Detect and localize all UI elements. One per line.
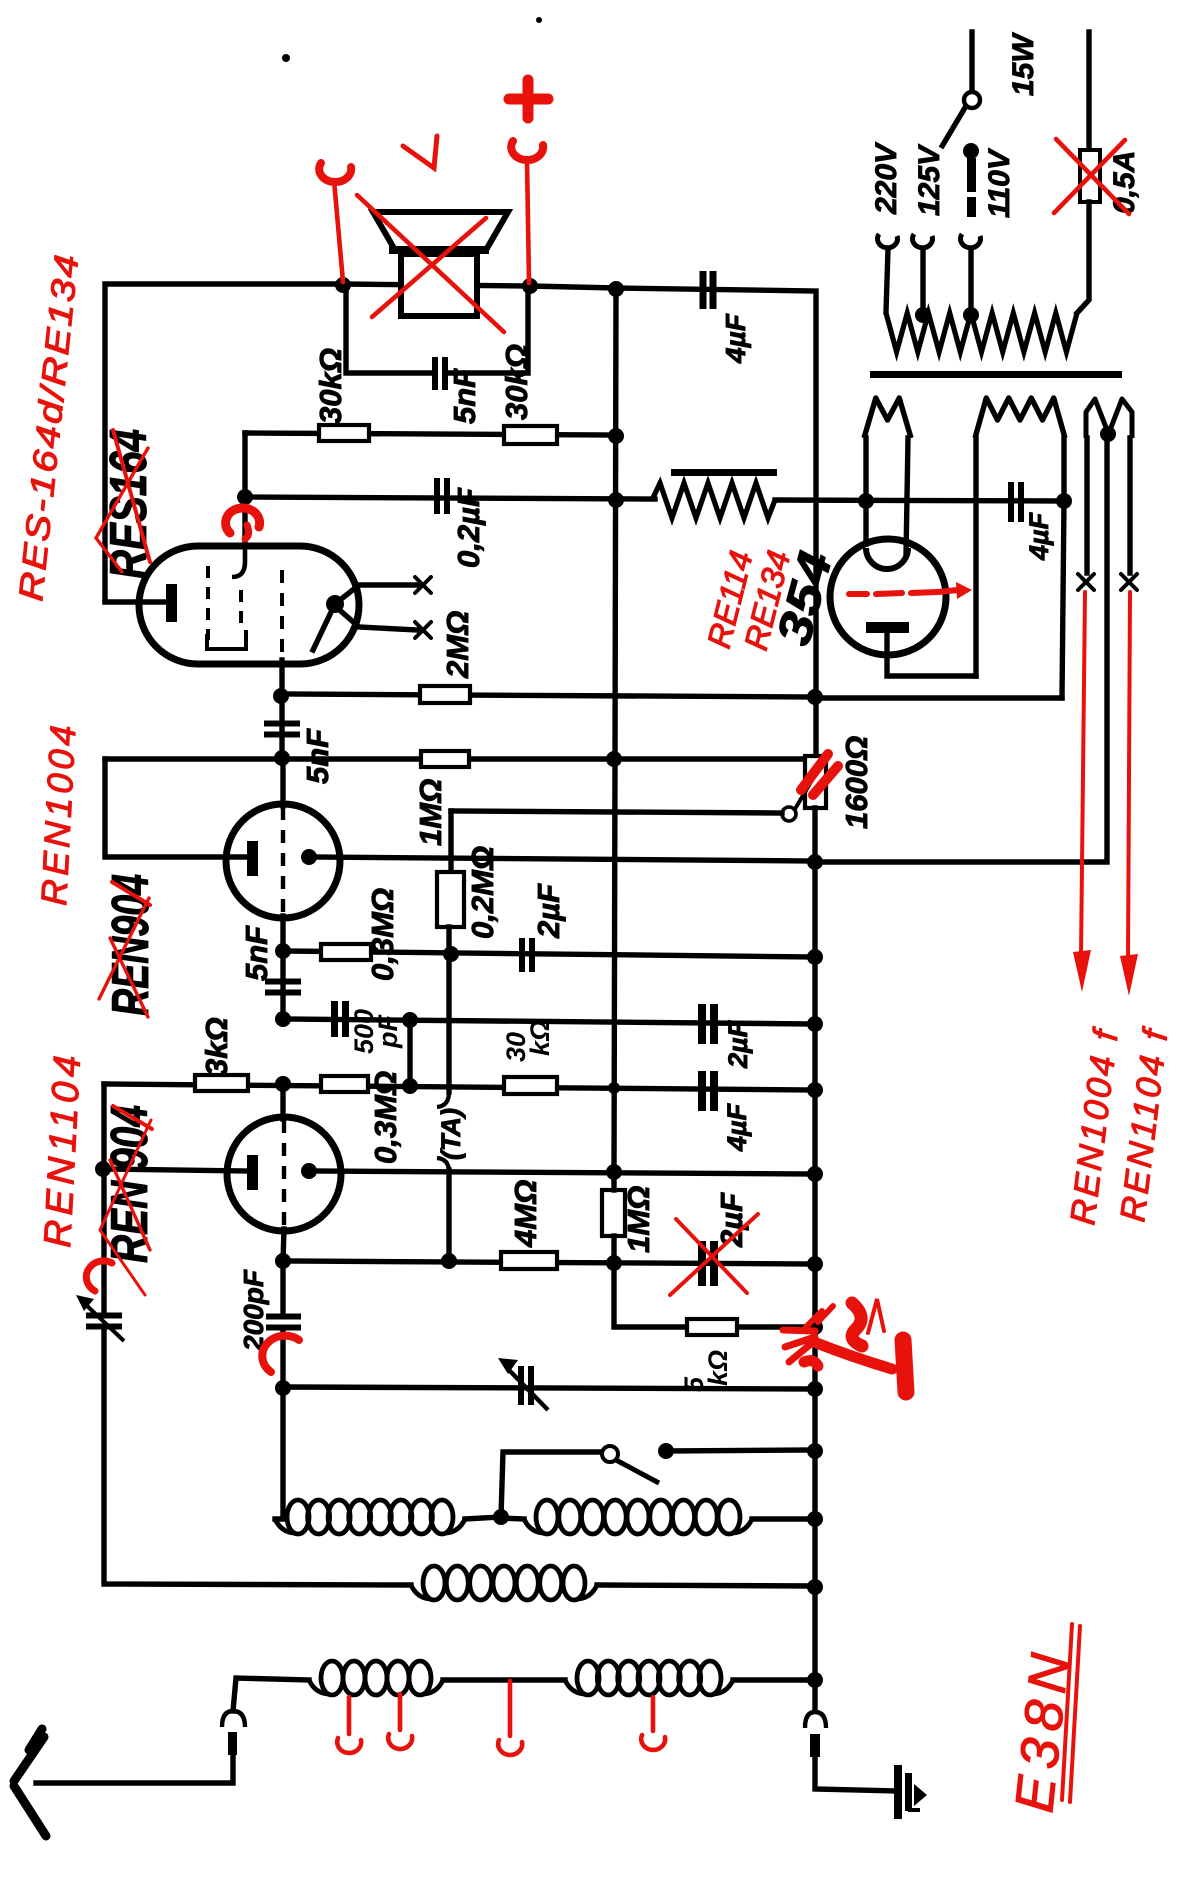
svg-text:4µF: 4µF	[722, 1102, 752, 1152]
red arrow head left	[1073, 950, 1091, 992]
wire to ground symbol	[815, 1757, 897, 1791]
potentiometer 1600 Ohm arrow	[795, 753, 828, 809]
junction x283 / y1020	[275, 1011, 291, 1027]
variable capacitor tuning arrow	[498, 1358, 548, 1410]
resistor 5kOhm	[687, 1319, 737, 1335]
svg-text:30kΩ: 30kΩ	[499, 344, 534, 420]
red X over speaker stroke 2	[372, 218, 486, 317]
wire 0,2M top link x451	[448, 811, 453, 872]
wire cathode rail right y862	[815, 438, 1107, 862]
TA lower hook	[437, 1158, 449, 1172]
wire left column x104 lower	[104, 1331, 411, 1585]
resistor 30kOhm third	[504, 1077, 557, 1094]
wire REN1004 top lead	[280, 759, 285, 806]
tube RES164 anode bar	[166, 584, 177, 622]
wire x614 down to 5k	[614, 1263, 687, 1327]
voltage selector plug shaft	[967, 158, 976, 217]
resistor 30kOhm right	[504, 426, 557, 444]
x-mark lower lead	[415, 622, 431, 638]
red arrow head right	[1120, 954, 1138, 996]
wire winding A right leg	[906, 438, 908, 556]
x-mark winding C right	[1121, 574, 1137, 590]
capacitor C 2uF crossed	[698, 1241, 718, 1286]
wire RES164 cathode down	[279, 660, 284, 695]
junction cathode / 2M wire	[273, 688, 289, 704]
wire band switch feed	[501, 1452, 600, 1517]
variable capacitor tuning plates	[518, 1366, 534, 1405]
red strike REN 904 second c	[100, 1120, 151, 1295]
junction 5k / bus	[807, 1319, 823, 1335]
coil L2 coupling	[411, 1566, 597, 1600]
coil L3a	[309, 1661, 443, 1695]
wire grid-leak rail y759	[105, 756, 805, 761]
svg-text:2µF: 2µF	[531, 883, 566, 939]
red check mark	[403, 136, 437, 168]
svg-text:1600Ω: 1600Ω	[839, 736, 874, 829]
wire between L3a L3b	[443, 1677, 565, 1682]
coil L3b	[565, 1661, 733, 1695]
red strike over RES164 label 2	[96, 448, 148, 572]
junction L1b / bus	[807, 1511, 823, 1527]
svg-text:0,3MΩ: 0,3MΩ	[365, 888, 400, 981]
tube REN1004 anode bar	[247, 841, 258, 876]
potentiometer 1600 Ohm wiper circle	[782, 807, 796, 821]
transformer winding C	[1086, 399, 1132, 438]
tube RES164 internal node	[326, 595, 344, 613]
red strike REN 904 second b	[110, 1160, 150, 1250]
trimmer capacitor antenna plates	[86, 1313, 122, 1330]
junction primary tap 110V	[963, 307, 979, 323]
wire cathode rail y858	[309, 857, 815, 861]
junction cathode rail / bus	[807, 854, 823, 870]
fuse 0,5A body	[1080, 150, 1100, 202]
wire RE114 cathode stem	[887, 633, 976, 676]
wire 1M vertical link low	[611, 1236, 616, 1263]
wire winding A left leg	[863, 438, 868, 544]
junction x104 / grid wire	[95, 1161, 111, 1177]
junction y1086 / x614	[608, 1082, 620, 1094]
resistor 1MOhm horizontal	[421, 751, 469, 767]
wire winding B left leg	[973, 438, 978, 676]
resistor 4MOhm	[501, 1252, 557, 1269]
tube RES164 grid dashes	[208, 566, 241, 640]
capacitor C 500pF	[331, 1001, 349, 1037]
wire 30k coupling rail y433	[245, 433, 616, 435]
mains switch arm	[941, 106, 966, 148]
red tap hook 4	[641, 1697, 665, 1750]
antenna plug pin	[228, 1732, 237, 1755]
junction top rail / x616 drop	[608, 281, 624, 297]
speaker LS (crossed out) cone	[373, 212, 508, 250]
junction y1387 / bus	[807, 1381, 823, 1397]
junction 1M bottom / y1262	[606, 1255, 622, 1271]
wire TA branch lower	[446, 1170, 451, 1259]
red drop line right	[1128, 592, 1130, 960]
junction L3b / bus	[807, 1672, 823, 1688]
wire L3 left lead	[233, 1678, 309, 1711]
resistor 2MOhm	[420, 686, 470, 703]
wire winding B right leg	[1062, 438, 1064, 698]
tube REN1004 envelope	[226, 804, 340, 918]
junction y1089 / bus	[807, 1082, 823, 1098]
tube REN1104 envelope	[227, 1117, 341, 1231]
svg-text:0,2MΩ: 0,2MΩ	[465, 846, 500, 939]
wire L3b to bus	[733, 1677, 816, 1682]
tube RE114 anode cup	[866, 548, 908, 569]
wire antenna lead	[36, 1755, 233, 1783]
voltage selector plug dot	[963, 143, 979, 159]
terminal hook 220V	[877, 234, 897, 248]
svg-text:(TA): (TA)	[436, 1108, 466, 1160]
red curl above RES164 tail	[245, 525, 249, 539]
resistor 0,3MOhm second	[321, 1076, 368, 1092]
red filament dashes RE114	[849, 590, 958, 594]
wire speaker bypass loop right	[447, 287, 528, 373]
svg-text:2µF: 2µF	[723, 1019, 753, 1069]
resistor 1MOhm vertical	[602, 1190, 625, 1236]
wire HT rail y497	[245, 497, 655, 499]
wire vertical x615 grid-leak column	[614, 289, 616, 1172]
junction 0,2M bottom	[443, 946, 459, 962]
speaker field coil winding	[652, 483, 775, 518]
capacitor C 4uF top rail	[700, 271, 717, 309]
svg-text:5nF: 5nF	[300, 728, 335, 784]
capacitor C 0,2uF	[434, 478, 450, 514]
capacitor C 200pF	[266, 1314, 301, 1331]
junction y1022 / bus	[807, 1016, 823, 1032]
transformer primary winding	[886, 313, 1077, 352]
tube RES164 cathode bracket	[207, 630, 246, 649]
junction 30k rail on x616	[608, 428, 624, 444]
wire HT rail y500 right part	[775, 500, 1065, 501]
red tap hook 3	[498, 1681, 522, 1755]
wire HT right link y698	[816, 695, 1062, 700]
red lead hook left	[334, 180, 343, 282]
capacitor C 2uF y1022	[698, 1004, 718, 1044]
red plus mark	[509, 80, 548, 118]
TA upper hook	[437, 1092, 449, 1107]
junction speaker right	[522, 278, 538, 294]
svg-text:4µF: 4µF	[1024, 511, 1054, 561]
red tap hook 1	[337, 1697, 361, 1753]
red X over 2uF stroke 1	[676, 1219, 747, 1293]
wire y1387 row	[283, 1387, 816, 1389]
wire junction to L1b	[501, 1518, 524, 1519]
ground plug socket arc	[805, 1712, 826, 1728]
wire REN1104 grid wire y1171	[103, 1169, 248, 1171]
junction between L1a and L1b	[493, 1509, 509, 1525]
svg-text:15W: 15W	[1007, 32, 1040, 96]
red tap hook 2	[388, 1694, 412, 1749]
wire TA branch upper	[446, 927, 451, 1092]
junction L2 / bus	[807, 1579, 823, 1595]
wire band switch to bus	[666, 1450, 816, 1451]
ink speck top	[282, 54, 290, 62]
speaker LS magnet box	[401, 254, 477, 316]
speaker LS flange bar	[389, 246, 489, 254]
junction y1086 / x410	[402, 1078, 418, 1094]
red drop line left	[1081, 592, 1085, 956]
junction primary tap 125V	[915, 307, 931, 323]
wire L2 to bus	[597, 1585, 816, 1586]
junction winding C centre tap	[1100, 426, 1116, 442]
resistor 0,3MOhm	[321, 944, 371, 960]
wire 220V lead	[886, 249, 888, 312]
svg-text:4MΩ: 4MΩ	[508, 1180, 543, 1248]
resistor 30kOhm left	[319, 425, 369, 441]
red lead hook right	[527, 160, 529, 283]
capacitor C 5nF across speaker	[432, 357, 448, 390]
band switch contact	[658, 1443, 674, 1459]
transformer winding A	[864, 398, 911, 438]
wire left drop to REN1004	[105, 759, 248, 857]
junction TA / y1262	[441, 1253, 457, 1269]
tube RE114 envelope	[830, 539, 946, 655]
wire REN1104 bottom lead	[283, 1229, 284, 1261]
red strike REN 904 second a	[113, 1106, 152, 1129]
capacitor C 2uF y954	[519, 938, 535, 972]
terminal hook 125V	[912, 234, 932, 248]
wire top rail from left corner to HT bus corner	[105, 284, 816, 760]
wire winding C left drop	[1084, 438, 1089, 573]
RES164 grid lead hook	[232, 538, 245, 577]
tube RES164 filament dashed	[280, 570, 284, 660]
svg-text:0,2µF: 0,2µF	[451, 487, 486, 568]
red X over fuse stroke 1	[1056, 139, 1129, 214]
x-mark upper lead	[415, 577, 431, 593]
red underline E38N a	[1062, 1624, 1072, 1800]
red filament arrow head RE114	[956, 582, 972, 599]
red scribble at bus	[783, 1299, 906, 1392]
junction switch wire / bus	[807, 1443, 823, 1459]
wire y954 row	[283, 951, 816, 957]
wire x410 link	[407, 1020, 412, 1086]
field coil core bar	[671, 469, 777, 476]
capacitor C 5nF cathode	[264, 721, 300, 738]
red curl left edge	[86, 1261, 112, 1291]
mains switch stem	[969, 32, 974, 92]
junction speaker left	[335, 277, 351, 293]
tube REN1104 anode bar	[247, 1155, 258, 1190]
red hook right of speaker	[511, 141, 543, 160]
junction y954 / bus	[807, 949, 823, 965]
resistor 0,2MOhm vertical	[437, 872, 464, 927]
band switch pivot	[602, 1446, 618, 1462]
wire RES164 grid lead	[242, 433, 247, 540]
svg-text:5nF: 5nF	[239, 925, 274, 981]
red underline E38N b	[1070, 1626, 1080, 1802]
capacitor C 4uF HT	[1008, 482, 1024, 522]
tube RE114 cathode bar	[866, 622, 909, 633]
ground plug pin	[810, 1734, 820, 1757]
svg-text:4µF: 4µF	[720, 313, 751, 364]
tube REN1004 grid node	[301, 849, 317, 865]
coil L1a antenna section	[275, 1500, 465, 1534]
junction grid lead / HT rail	[237, 489, 253, 505]
junction HT rail / winding A leg	[858, 493, 874, 509]
svg-text:110V: 110V	[983, 147, 1016, 218]
mains switch pivot	[964, 92, 980, 108]
wire left column x104	[101, 1084, 106, 1311]
junction y1020 / x410	[402, 1012, 418, 1028]
wire winding C right drop	[1127, 438, 1132, 573]
svg-text:200pF: 200pF	[238, 1269, 269, 1352]
wire HT bus lower	[812, 808, 817, 1711]
wire x283 to tuning row	[275, 1331, 283, 1519]
wire cathode cap link	[279, 695, 284, 758]
wire RES164 aux lead lower with x	[335, 606, 418, 630]
svg-text:500pF: 500pF	[349, 1009, 403, 1054]
red strike REN904 label a	[112, 882, 150, 905]
red hook left of speaker	[319, 163, 351, 182]
junction y759 / x614	[606, 751, 622, 767]
svg-text:1MΩ: 1MΩ	[413, 779, 448, 846]
potentiometer 1600 Ohm body	[805, 756, 826, 808]
junction y1262 / bus	[807, 1256, 823, 1272]
svg-text:220V: 220V	[870, 141, 903, 215]
junction REN1004 cathode	[275, 943, 291, 959]
terminal hook 110V	[960, 234, 980, 248]
tube REN1104 filament dashed	[282, 1120, 286, 1229]
junction grid rail / x614	[606, 1164, 622, 1180]
coil L1b antenna section	[524, 1500, 752, 1534]
svg-text:5nF: 5nF	[447, 368, 482, 424]
wire wiper rail y811	[451, 811, 782, 813]
svg-text:2MΩ: 2MΩ	[440, 611, 475, 679]
ground symbol	[894, 1765, 927, 1819]
wire RES164 internal diagonal	[313, 608, 333, 650]
svg-text:0,5A: 0,5A	[1108, 151, 1141, 214]
wire REN1104 top lead	[280, 1082, 285, 1119]
junction x283 / y1387	[275, 1380, 291, 1396]
wire REN1104 plate rail	[309, 1171, 816, 1174]
svg-text:30kΩ: 30kΩ	[313, 348, 348, 424]
wire L1b to bus	[752, 1516, 816, 1521]
junction grid rail / bus	[807, 1166, 823, 1182]
capacitor C 4uF y1089	[698, 1071, 718, 1111]
junction 5nF / y759	[274, 750, 290, 766]
svg-text:3kΩ: 3kΩ	[199, 1017, 234, 1076]
wire 125V lead	[920, 249, 925, 314]
tube REN1004 filament dashed	[281, 807, 285, 916]
red curl above RES164	[226, 508, 260, 533]
wire y1086 row	[104, 1084, 816, 1090]
svg-text:1MΩ: 1MΩ	[621, 1186, 656, 1253]
antenna arrow symbol	[14, 1729, 46, 1836]
wire 110V lead	[968, 249, 973, 314]
x-mark winding C left	[1078, 574, 1094, 590]
transformer winding B	[975, 398, 1065, 438]
band switch arm	[616, 1460, 659, 1483]
antenna plug socket arc	[222, 1711, 245, 1727]
trimmer capacitor antenna arrow	[76, 1295, 124, 1341]
red marks on 1600 pot	[801, 754, 838, 795]
junction REN1104 cathode	[275, 1253, 291, 1269]
wire RES164 aux lead upper with x	[335, 585, 418, 604]
wire speaker bypass loop with 5nF	[346, 287, 432, 373]
wire fuse lead bottom	[1077, 202, 1089, 313]
wire 2MOhm rail y694	[281, 694, 816, 697]
wire anode lead of RES164 to left rail	[105, 599, 168, 604]
wire 5k to bus	[737, 1324, 816, 1329]
wire y1020 row	[283, 1019, 816, 1024]
resistor 3kOhm	[195, 1075, 248, 1091]
wire x283 below REN1104	[280, 1261, 285, 1311]
red X over 2uF stroke 2	[670, 1214, 758, 1295]
wire 1M vertical link	[611, 1172, 616, 1190]
junction 2M rail / HT bus	[807, 689, 823, 705]
red curl below 200pF	[262, 1336, 299, 1372]
red X over speaker stroke 1	[357, 195, 504, 332]
wire REN1004 cathode down x283	[280, 951, 285, 1019]
svg-text:125V: 125V	[913, 143, 946, 216]
wire y1262 row	[283, 1261, 816, 1264]
junction HT rail at x616	[608, 492, 624, 508]
red strike REN904 label b	[110, 938, 148, 1017]
red strike REN904 label c	[99, 898, 149, 999]
tube RES164 envelope	[139, 546, 359, 664]
svg-text:0,3MΩ: 0,3MΩ	[368, 1071, 403, 1164]
junction REN1104 top on y1086	[275, 1076, 291, 1092]
tube REN1104 grid node	[301, 1163, 317, 1179]
junction y1086 / x283	[275, 1076, 291, 1092]
wire REN1004 bottom lead	[280, 916, 285, 951]
junction HT rail / winding B leg	[1056, 493, 1072, 509]
capacitor C 5nF interstage	[265, 979, 301, 996]
red strike over RES164 label 1	[113, 430, 150, 562]
red X over fuse stroke 2	[1054, 140, 1125, 213]
wire L1a to junction	[465, 1517, 501, 1519]
ink speck top right	[536, 17, 542, 23]
wire fuse lead top	[1086, 32, 1091, 150]
transformer core bar	[870, 371, 1122, 378]
